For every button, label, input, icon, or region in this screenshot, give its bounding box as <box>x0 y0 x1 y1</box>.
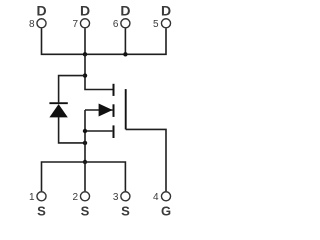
mosfet Q1 body wire <box>85 109 112 111</box>
svg-text:6: 6 <box>113 19 119 30</box>
pin 6 terminal circle <box>121 19 130 28</box>
svg-text:S: S <box>37 204 46 219</box>
mosfet Q1 body arrow <box>99 104 113 117</box>
junction dot source bus <box>83 160 87 164</box>
wire diode anode to source node <box>59 117 85 143</box>
svg-text:4: 4 <box>153 192 159 203</box>
svg-text:D: D <box>80 2 90 18</box>
svg-text:1: 1 <box>29 192 35 203</box>
junction dot bus/pin6 <box>123 52 127 56</box>
svg-text:7: 7 <box>72 19 78 30</box>
mosfet Q1 source wire <box>85 130 112 132</box>
pin 7 terminal circle <box>80 19 89 28</box>
junction dot bus/pin7 <box>83 52 87 56</box>
mosfet Q1 drain contact bar <box>113 84 115 96</box>
wire pin7 drop <box>84 28 86 54</box>
wire pin2 riser <box>84 162 86 191</box>
pin 3 terminal circle <box>121 192 130 201</box>
junction dot diode/source <box>83 141 87 145</box>
wire pin6 drop <box>124 28 126 54</box>
mosfet Q1 source contact bar <box>113 125 115 138</box>
svg-text:G: G <box>161 204 171 219</box>
svg-text:S: S <box>81 204 90 219</box>
wire body to source vertical <box>84 110 86 162</box>
wire drain bus with pin8/pin5 drops <box>42 28 167 54</box>
svg-text:D: D <box>161 2 171 18</box>
wire source bus <box>42 162 126 191</box>
pin 2 terminal circle <box>80 192 89 201</box>
svg-text:8: 8 <box>29 19 35 30</box>
svg-text:2: 2 <box>72 192 78 203</box>
svg-text:5: 5 <box>153 19 159 30</box>
svg-text:D: D <box>36 2 46 18</box>
svg-text:D: D <box>120 2 130 18</box>
mosfet Q1 body contact bar <box>113 104 115 117</box>
wire gate to pin4 <box>126 129 166 191</box>
pin 1 terminal circle <box>37 192 46 201</box>
wire to diode cathode <box>59 76 85 103</box>
pin 8 terminal circle <box>37 19 46 28</box>
pin 4 terminal circle <box>161 192 170 201</box>
diode D1 anode triangle <box>49 104 67 117</box>
junction dot drain/diode <box>83 73 87 77</box>
svg-text:3: 3 <box>113 192 119 203</box>
mosfet Q1 gate plate <box>125 89 127 129</box>
wire bus to drain contact <box>85 54 113 89</box>
junction dot source wire <box>83 129 87 133</box>
pin 5 terminal circle <box>161 19 170 28</box>
diode D1 cathode bar <box>49 102 67 104</box>
svg-text:S: S <box>121 204 130 219</box>
